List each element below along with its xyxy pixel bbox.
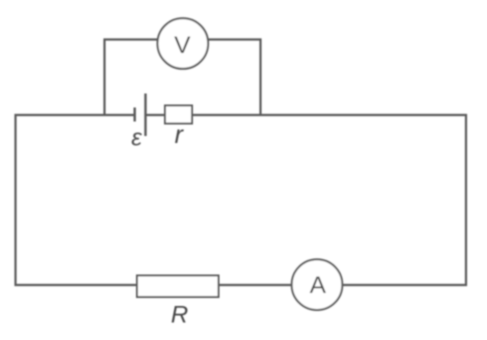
svg-text:ε: ε (131, 125, 142, 152)
wire: top wire left of battery (15, 114, 135, 116)
wire: main loop bottom (15, 284, 468, 286)
battery cell: short negative plate (133, 108, 135, 122)
svg-text:A: A (310, 272, 327, 299)
svg-text:V: V (174, 32, 191, 59)
wire: top wire right of battery (146, 114, 468, 116)
battery cell: tall positive plate (144, 94, 146, 137)
svg-text:r: r (175, 121, 185, 149)
wire: main loop right vertical (465, 114, 467, 286)
resistor R box (137, 276, 219, 298)
wire: voltmeter branch (up, across, down) (105, 40, 261, 116)
resistor r (internal resistance) box (165, 106, 192, 124)
svg-text:R: R (171, 302, 188, 329)
voltmeter V1 circle (158, 18, 209, 69)
wire: main loop left vertical (14, 114, 16, 286)
ammeter A1 circle (292, 259, 343, 310)
